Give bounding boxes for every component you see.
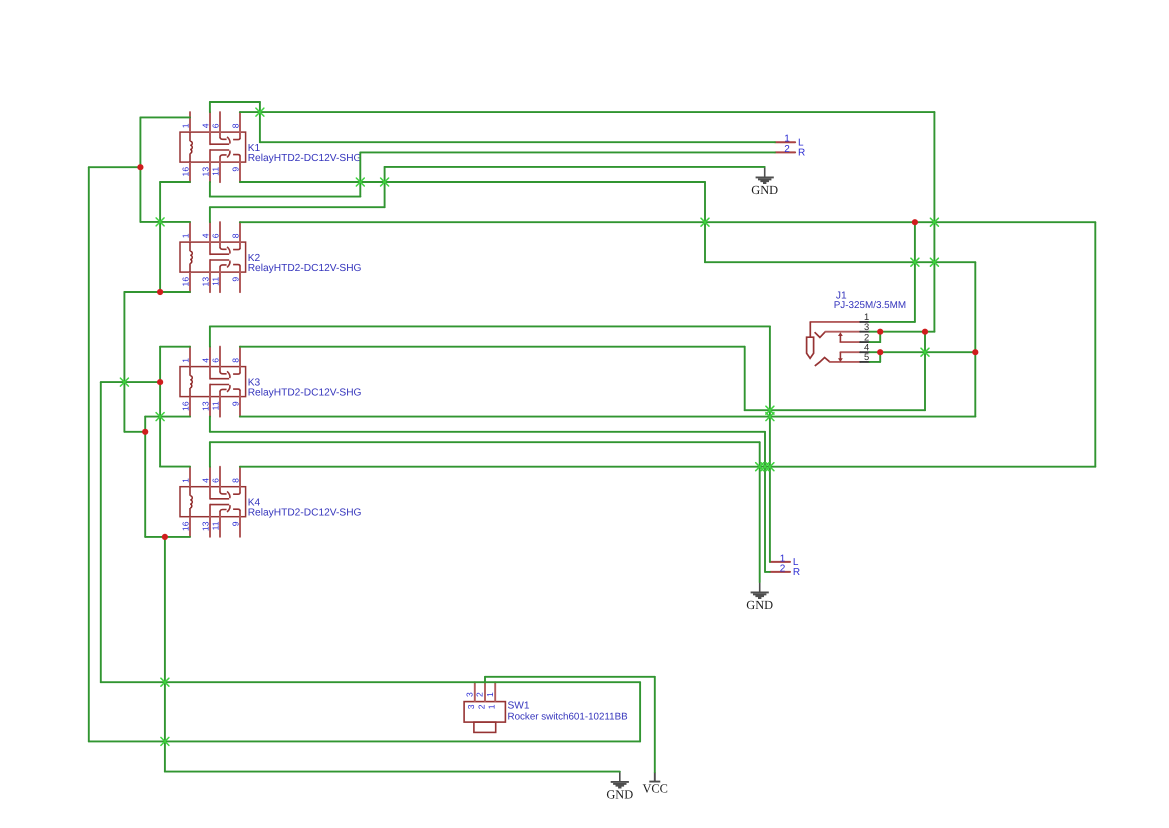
K3 pin 1	[189, 347, 191, 367]
wire port R top run	[360, 151, 775, 153]
svg-text:11: 11	[210, 521, 220, 530]
svg-text:RelayHTD2-DC12V-SHG: RelayHTD2-DC12V-SHG	[248, 508, 362, 519]
switch SW1 Rocker switch601-10211BB	[464, 682, 628, 732]
wire pin16 jog	[124, 431, 145, 433]
svg-text:RelayHTD2-DC12V-SHG: RelayHTD2-DC12V-SHG	[248, 153, 362, 164]
K1 body	[180, 132, 246, 162]
K1 pin 4	[209, 112, 211, 144]
svg-text:R: R	[793, 567, 800, 578]
J1 pin 3 line	[825, 331, 860, 333]
svg-text:6: 6	[210, 478, 220, 483]
K2 pin 11	[219, 267, 221, 292]
svg-text:16: 16	[180, 401, 190, 411]
K1 pin 16	[189, 162, 191, 182]
wire K3 pin1 riser	[159, 347, 161, 467]
wire pin16 rail x124	[123, 292, 125, 432]
svg-text:8: 8	[230, 478, 240, 483]
svg-text:6: 6	[210, 358, 220, 363]
junction crossing K1 pin13/pin9	[356, 178, 364, 186]
wire far right rail	[1094, 222, 1096, 467]
junction crossing pin16 rail/K3 coil	[120, 378, 128, 386]
K3 contact A (pins 4-6-8)	[210, 371, 240, 378]
K4 coil	[190, 487, 192, 517]
K1 pin 1	[189, 112, 191, 132]
svg-text:3: 3	[864, 321, 869, 332]
wire K3 pin1 horizontal	[160, 346, 190, 348]
junction crossing pin16 rail/SW1 pin3	[161, 678, 169, 686]
junction crossing port R drop/K4 pin8	[761, 463, 769, 471]
svg-text:6: 6	[210, 123, 220, 128]
K3 pin 6	[219, 347, 221, 372]
relay K2 RelayHTD2-DC12V-SHG	[180, 222, 362, 292]
K3 pin 8	[239, 347, 241, 373]
junction crossing K3 pin1 riser/K3 pin16	[156, 413, 164, 421]
wire port R bottom drop	[764, 432, 766, 572]
wire K2 pin1 horizontal	[140, 221, 190, 223]
svg-text:4: 4	[200, 358, 210, 363]
junction dot coil feed	[137, 164, 143, 170]
junction dot J1 pin2-3	[877, 329, 883, 335]
wire left rail x101	[100, 382, 102, 682]
K3 contact B (pins 13-11-9)	[210, 385, 240, 392]
wire K1 pin9 link	[705, 261, 975, 263]
wire K1 pin13 jog	[210, 196, 360, 198]
wire GND run bottom	[165, 771, 620, 773]
relay K3 RelayHTD2-DC12V-SHG	[180, 347, 362, 417]
K1 contact A (pins 4-6-8)	[210, 137, 240, 144]
svg-text:1: 1	[180, 233, 190, 238]
K3 coil	[190, 367, 192, 397]
port 2 R bottom	[770, 563, 800, 578]
wire SW1 pin1 bottom run	[89, 740, 640, 742]
wire K2 pin16 horizontal	[124, 291, 190, 293]
svg-text:5: 5	[864, 351, 869, 362]
ground GND top right	[751, 167, 778, 197]
K4 pin 8	[239, 467, 241, 493]
wire K1 pin4 drop	[259, 102, 261, 142]
ground GND bottom right	[746, 582, 773, 612]
wire J1 pin1 horizontal	[870, 321, 915, 323]
wire GND bottom right run	[210, 441, 760, 443]
svg-text:11: 11	[210, 401, 220, 410]
svg-text:8: 8	[230, 123, 240, 128]
junction crossing K2 pin4/K1 pin9	[381, 178, 389, 186]
wire K4 pin1 horizontal	[160, 466, 190, 468]
K3 pin 13	[209, 385, 211, 417]
relay K4 RelayHTD2-DC12V-SHG	[180, 467, 362, 537]
K2 pin 13	[209, 260, 211, 292]
junction crossing J1 pin3 drop/J1 pin4	[921, 348, 929, 356]
wire J1 pin5 stub	[870, 361, 881, 363]
wire VCC drop	[654, 677, 656, 772]
svg-text:GND: GND	[746, 598, 773, 612]
wire GND bottom right drop	[759, 442, 761, 582]
wire K3 pin8 run	[240, 346, 745, 348]
wire port L top run	[260, 141, 775, 143]
wire J1 pin3 riser	[933, 112, 935, 332]
wire GND top run	[385, 166, 765, 168]
SW1 pin 3	[474, 682, 476, 701]
K3 pin 11	[219, 392, 221, 417]
svg-text:6: 6	[210, 233, 220, 238]
junction crossing K1 pin9/K2 pin8	[701, 218, 709, 226]
K3 pin 16	[189, 397, 191, 417]
svg-text:R: R	[798, 148, 805, 159]
junction crossing K1 pin16/K2 pin1	[156, 218, 164, 226]
wire J1 pin4 horizontal	[870, 351, 976, 353]
wire K3 pin13 down	[209, 417, 211, 432]
wire SW1 pin1 riser	[639, 682, 641, 741]
ground GND bottom middle	[606, 772, 633, 802]
K2 pin 16	[189, 272, 191, 292]
svg-text:1: 1	[487, 704, 497, 709]
junction crossing K1 pin4/pin8	[256, 108, 264, 116]
wire K1 pin1 horizontal	[140, 116, 190, 118]
wire SW1 pin2 run	[485, 676, 655, 678]
K2 contact A (pins 4-6-8)	[210, 247, 240, 254]
svg-text:2: 2	[784, 144, 790, 155]
K2 pin 8	[239, 222, 241, 248]
svg-text:PJ-325M/3.5MM: PJ-325M/3.5MM	[834, 300, 906, 311]
junction dot J1 pin3 branch	[922, 329, 928, 335]
K2 pin 4	[209, 222, 211, 254]
junction crossing J1 pin3/K1 pin9 link	[930, 258, 938, 266]
junction dot K2 pin16	[157, 289, 163, 295]
svg-text:16: 16	[180, 277, 190, 287]
wire port L bottom drop	[769, 326, 771, 562]
wire left rail x89	[88, 167, 90, 741]
K2 pin 9	[239, 266, 241, 292]
SW1 pin 2	[484, 682, 486, 701]
wire port R bottom jog	[765, 571, 770, 573]
wire K3 coil feed	[101, 381, 160, 383]
wire K3 pin8 link run	[745, 409, 925, 411]
K2 contact B (pins 13-11-9)	[210, 260, 240, 267]
K4 body	[180, 487, 246, 517]
svg-text:11: 11	[210, 167, 220, 176]
svg-text:13: 13	[200, 167, 210, 177]
wire SW1 pin2 riser	[484, 677, 486, 682]
K2 coil	[190, 242, 192, 272]
junction crossing J1 pin3/K2 pin8	[930, 218, 938, 226]
wire J1 pin3 horizontal	[870, 331, 935, 333]
svg-text:9: 9	[230, 521, 240, 526]
wire port L bottom run	[210, 325, 770, 327]
svg-text:13: 13	[200, 401, 210, 411]
K1 pin 13	[209, 150, 211, 182]
relay K1 RelayHTD2-DC12V-SHG	[180, 112, 362, 182]
wire K1 pin8 run	[240, 111, 935, 113]
svg-text:9: 9	[230, 401, 240, 406]
wire coil feed left	[89, 166, 141, 168]
junction dot J1 pin4 net	[972, 349, 978, 355]
wire J1 pin3 drop	[924, 332, 926, 411]
port 1 L top	[775, 134, 804, 149]
J1 ring contact	[815, 358, 830, 366]
wire port R bottom run	[210, 431, 765, 433]
wire K3 pin9 run	[240, 416, 975, 418]
wire K1 pin13 down	[209, 182, 211, 197]
svg-text:3: 3	[464, 692, 474, 697]
junction crossing port L/K3 pin9	[766, 413, 774, 421]
wire left column x140	[139, 117, 141, 221]
wire K2 pin4 jog	[210, 206, 385, 208]
power VCC	[642, 772, 667, 796]
wire J1 pin5 riser	[879, 352, 881, 362]
junction dot K4 pin16	[162, 534, 168, 540]
junction crossing port L/K3 pin8 link	[766, 406, 774, 414]
svg-text:VCC: VCC	[642, 782, 667, 796]
J1 sleeve	[809, 322, 811, 337]
K2 pin 6	[219, 222, 221, 247]
svg-text:RelayHTD2-DC12V-SHG: RelayHTD2-DC12V-SHG	[248, 263, 362, 274]
wire K3 pin16 horizontal	[145, 416, 190, 418]
wire K3 pin16 riser	[144, 417, 146, 537]
junction dot J1 pin4-5	[877, 349, 883, 355]
wire K1 pin4 up	[209, 102, 211, 112]
svg-text:11: 11	[210, 277, 220, 286]
svg-text:1: 1	[180, 358, 190, 363]
wire K3 pin4 up	[209, 326, 211, 346]
port 1 L bottom	[770, 553, 799, 568]
wire K1-K2 pin16 riser	[159, 182, 161, 292]
svg-text:1: 1	[180, 123, 190, 128]
J1 pin 5 line	[830, 361, 860, 363]
K2 body	[180, 242, 246, 272]
K1 pin 8	[239, 112, 241, 138]
K2 pin 1	[189, 222, 191, 242]
svg-text:SW1: SW1	[508, 700, 530, 711]
K4 pin 16	[189, 517, 191, 537]
svg-text:9: 9	[230, 277, 240, 282]
junction crossing port L drop/K4 pin8	[766, 463, 774, 471]
K1 contact B (pins 13-11-9)	[210, 150, 240, 157]
junction dot J1 pin1 net	[912, 219, 918, 225]
wire K1 pin9 drop	[704, 182, 706, 262]
K1 pin 11	[219, 157, 221, 182]
K1 coil	[190, 132, 192, 162]
K4 pin 1	[189, 467, 191, 487]
SW1 body	[464, 702, 505, 723]
SW1 actuator tab	[474, 722, 496, 732]
K4 pin 6	[219, 467, 221, 492]
junction crossing pin16 rail/SW1 pin1	[161, 737, 169, 745]
connector J1 PJ-325M/3.5MM	[807, 291, 907, 366]
svg-text:RelayHTD2-DC12V-SHG: RelayHTD2-DC12V-SHG	[248, 387, 362, 398]
svg-text:13: 13	[200, 521, 210, 531]
junction dot pin16 jog	[142, 429, 148, 435]
svg-text:4: 4	[200, 233, 210, 238]
wire J1 pin1 riser	[914, 222, 916, 322]
wire K2 pin4 up	[209, 207, 211, 222]
svg-text:2: 2	[476, 704, 486, 709]
svg-text:GND: GND	[606, 788, 633, 802]
svg-text:2: 2	[475, 692, 485, 697]
svg-text:8: 8	[230, 358, 240, 363]
svg-text:4: 4	[200, 123, 210, 128]
svg-text:1: 1	[485, 692, 495, 697]
wire J1 pin2 riser	[879, 332, 881, 342]
wire K2 pin8 run	[240, 221, 1095, 223]
K1 pin 9	[239, 156, 241, 182]
svg-text:16: 16	[180, 521, 190, 531]
wire K1 pin9 run	[240, 181, 705, 183]
wire J1 pin2 stub	[870, 341, 881, 343]
K4 pin 4	[209, 467, 211, 499]
svg-text:Rocker switch601-10211BB: Rocker switch601-10211BB	[508, 711, 629, 722]
wire SW1 pin3 run	[101, 681, 640, 683]
K4 pin 9	[239, 511, 241, 537]
svg-text:1: 1	[180, 478, 190, 483]
svg-text:2: 2	[780, 563, 786, 574]
svg-text:3: 3	[466, 704, 476, 709]
K3 body	[180, 367, 246, 397]
wire K3 pin8 drop	[744, 347, 746, 411]
J1 pin 1 line	[810, 321, 860, 323]
SW1 pin 1	[494, 682, 496, 701]
junction dot K3 coil	[157, 379, 163, 385]
J1 ring switch arrow	[839, 352, 841, 359]
wire pin16 rail x165	[164, 537, 166, 772]
svg-text:GND: GND	[751, 183, 778, 197]
J1 tip contact	[815, 332, 826, 338]
svg-text:9: 9	[230, 167, 240, 172]
J1 pin 4 line	[840, 351, 860, 353]
wire J1 pin4 riser	[974, 262, 976, 416]
K3 pin 4	[209, 347, 211, 379]
wire K1 pin16 horizontal	[160, 181, 190, 183]
J1 tip switch arrow	[839, 335, 841, 342]
junction crossing GND drop/K4 pin8	[756, 463, 764, 471]
K4 contact B (pins 13-11-9)	[210, 505, 240, 512]
svg-text:4: 4	[200, 478, 210, 483]
port 2 R top	[775, 144, 805, 159]
svg-text:8: 8	[230, 233, 240, 238]
wire K4 pin8 run	[240, 466, 1095, 468]
svg-text:16: 16	[180, 167, 190, 177]
K4 pin 11	[219, 512, 221, 537]
K3 pin 9	[239, 391, 241, 417]
wire K4 pin4 up	[209, 442, 211, 467]
K4 pin 13	[209, 505, 211, 537]
K4 contact A (pins 4-6-8)	[210, 491, 240, 498]
junction crossing J1 pin1/K1 pin9 link	[911, 258, 919, 266]
wire K1 pin13 riser	[359, 152, 361, 196]
wire K1 pin4 jog	[210, 101, 260, 103]
wire K2 pin4 riser	[384, 167, 386, 207]
svg-text:13: 13	[200, 277, 210, 287]
wire K4 pin16 horizontal	[145, 536, 190, 538]
J1 pin 2 line	[840, 341, 860, 343]
K1 pin 6	[219, 112, 221, 137]
